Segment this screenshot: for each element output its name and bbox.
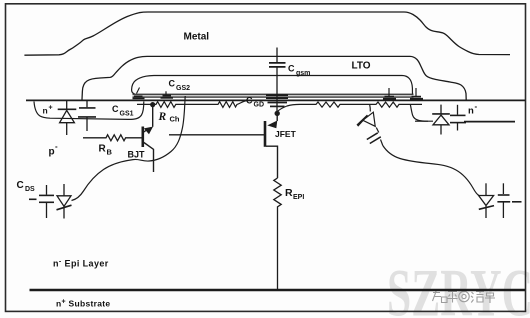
LTO outer outline xyxy=(82,56,466,99)
svg-text:C: C xyxy=(112,104,119,114)
svg-text:DS: DS xyxy=(25,186,35,193)
wire right of C_GD node with zigzags xyxy=(277,102,422,112)
svg-text:C: C xyxy=(169,79,176,89)
svg-text:n- Epi Layer: n- Epi Layer xyxy=(53,258,109,268)
diode D4 (bottom right, cathode down) xyxy=(479,183,494,218)
svg-text:-: - xyxy=(475,102,478,111)
n+ source region outline (left) xyxy=(34,102,144,120)
svg-text:Metal: Metal xyxy=(184,31,210,42)
wire stub left of D3 xyxy=(415,120,428,122)
surface line xyxy=(26,99,525,101)
metal outline xyxy=(24,12,510,55)
capacitor C_DS xyxy=(29,185,54,218)
svg-text:SZRYC: SZRYC xyxy=(387,255,530,318)
capacitor C_gsm xyxy=(269,48,286,95)
capacitor right of D4 xyxy=(497,183,521,218)
substrate line xyxy=(30,289,526,291)
diode D3 (right, cathode up) xyxy=(432,105,450,135)
diode D2 (C_DS body diode, cathode down) xyxy=(57,184,72,219)
svg-text:n+ Substrate: n+ Substrate xyxy=(56,298,110,308)
capacitor C_GS2 (on poly) xyxy=(161,91,174,98)
diode D1 (left body diode, cathode up) xyxy=(58,100,77,135)
svg-text:Ch: Ch xyxy=(170,115,180,124)
svg-text:GS1: GS1 xyxy=(120,111,134,118)
capacitor C_GS1 (plates) xyxy=(78,100,96,131)
capacitor stack C_GD (multi plates) xyxy=(266,94,288,113)
dashed diode assembly (tilted, mid right) xyxy=(357,112,383,145)
svg-text:B: B xyxy=(107,148,113,157)
small cap on poly (x389) xyxy=(383,88,396,99)
small cap on poly (x416) xyxy=(410,88,423,99)
svg-text:LTO: LTO xyxy=(352,60,371,71)
svg-text:R: R xyxy=(285,187,293,199)
svg-text:R: R xyxy=(99,144,107,155)
svg-text:gsm: gsm xyxy=(296,70,310,77)
svg-text:GS2: GS2 xyxy=(176,85,190,92)
resistor R_B xyxy=(83,135,142,141)
svg-text:n: n xyxy=(468,106,474,117)
svg-text:BJT: BJT xyxy=(128,149,146,159)
p-well left outline (big curve to C_DS diode) xyxy=(72,96,186,201)
svg-text:C: C xyxy=(246,96,253,106)
svg-text:C: C xyxy=(17,180,24,191)
svg-text:EPI: EPI xyxy=(293,194,304,201)
transistor BJT (npn, emitter up) xyxy=(143,105,154,173)
svg-text:p: p xyxy=(49,146,55,157)
p-well right outline xyxy=(410,104,433,121)
node dot (gate-drain node) xyxy=(275,111,280,116)
resistor R_EPI xyxy=(274,178,281,289)
capacitor right of D3 xyxy=(450,105,466,131)
svg-text:C: C xyxy=(288,64,295,74)
tick to dashed diode xyxy=(369,105,372,112)
small cap at poly left end xyxy=(133,88,145,99)
svg-text:n: n xyxy=(43,106,48,116)
svg-text:JFET: JFET xyxy=(275,129,297,139)
svg-text:GD: GD xyxy=(254,102,265,109)
watermark zhihu handle (drawn strokes) xyxy=(433,289,496,304)
transistor JFET xyxy=(169,114,278,178)
svg-text:+: + xyxy=(49,105,53,112)
poly gate bar (gray) xyxy=(133,95,414,97)
svg-text:R: R xyxy=(158,111,167,123)
schematic wire left (source node to C_GD) with R_Ch zigzag xyxy=(137,100,266,107)
n region line (right) xyxy=(464,121,515,123)
node dot (source node) xyxy=(150,102,155,107)
wire sweep from dashed cap to bottom-right diode xyxy=(383,146,479,196)
watermark SZRYC xyxy=(387,255,530,318)
svg-text:-: - xyxy=(55,142,58,151)
LTO inner outline (around poly) xyxy=(132,76,413,96)
